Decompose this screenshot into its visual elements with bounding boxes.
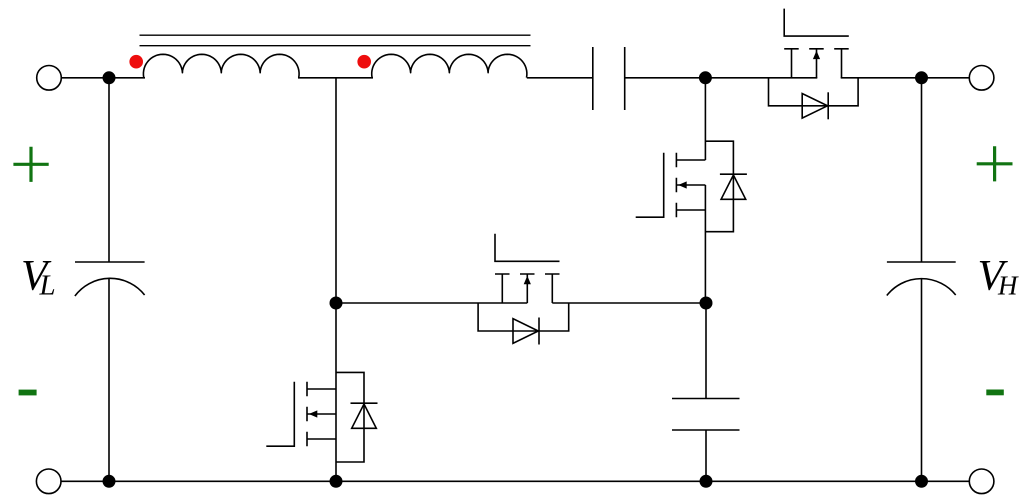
MOSFET Q4 (top right switch) body diode [802, 94, 827, 119]
MOSFET Q1 (bottom tap switch) body diode [352, 404, 377, 428]
MOSFET Q4 (top right switch) gate [784, 9, 849, 36]
node B junction [915, 71, 928, 84]
node bottom-right junction [915, 475, 928, 488]
MOSFET Q1 (bottom tap switch) drain/body/source leads [307, 389, 336, 439]
wire node A to Q4 [705, 77, 817, 79]
wire C1 to node A [625, 77, 706, 79]
wire node B to top-right terminal [922, 77, 970, 79]
terminal bottom-left [36, 469, 61, 494]
capacitor C1 left plate [592, 47, 594, 110]
terminal top-right [969, 66, 994, 91]
MOSFET Q1 (bottom tap switch) channel bars [306, 382, 308, 447]
wire C2 to bottom rail [705, 430, 707, 481]
MOSFET Q4 (top right switch) channel bars [784, 48, 849, 50]
wire Q2 drain side to node D [552, 302, 706, 304]
capacitor CL flat plate [75, 261, 145, 263]
transformer core line lower [140, 45, 531, 47]
wire node C to Q1 to bottom rail [335, 303, 337, 481]
terminal bottom-right [969, 469, 994, 494]
MOSFET Q2 (middle switch) channel bars [495, 273, 560, 275]
capacitor C1 right plate [624, 47, 626, 110]
capacitor C2 top plate [672, 398, 740, 400]
wire top-left terminal to winding 1 [61, 77, 145, 79]
MOSFET Q1 (bottom tap switch) gate [266, 382, 294, 446]
MOSFET Q2 (middle switch) body diode loop [478, 303, 569, 331]
wire node C to Q2 source side [336, 302, 527, 304]
polarity dot winding 2 [357, 55, 371, 69]
MOSFET Q3 (upper right vertical switch) channel bars [675, 153, 677, 218]
MOSFET Q4 (top right switch) body arrow [813, 51, 820, 60]
transformer core line upper [140, 34, 531, 36]
polarity dot winding 1 [129, 55, 143, 69]
MOSFET Q3 (upper right vertical switch) drain/body/source leads [676, 160, 705, 210]
MOSFET Q2 (middle switch) body diode [513, 319, 538, 344]
node A junction [699, 71, 712, 84]
wire bottom rail [61, 480, 969, 482]
MOSFET Q1 (bottom tap switch) body diode loop [336, 372, 364, 462]
MOSFET Q3 (upper right vertical switch) body diode [721, 175, 746, 199]
node bottom-left junction [103, 475, 116, 488]
node Q1 source junction [330, 475, 343, 488]
capacitor CH flat plate [887, 261, 956, 263]
node D junction [700, 297, 713, 310]
wire right branch lower [921, 279, 923, 482]
capacitor CL curved plate [75, 278, 145, 296]
MOSFET Q2 (middle switch) body arrow [524, 276, 531, 285]
wire node D to capacitor C2 [705, 303, 707, 399]
wire Q3 source to node D [704, 185, 706, 303]
wire node A to Q3 drain [704, 78, 706, 160]
svg-text:H: H [997, 271, 1019, 301]
MOSFET Q4 (top right switch) body diode loop [769, 78, 859, 106]
node top-left junction [103, 71, 116, 84]
plus sign left [13, 147, 48, 182]
MOSFET Q3 (upper right vertical switch) body diode loop [705, 141, 733, 232]
wire transformer tap down [335, 78, 337, 303]
MOSFET Q4 (top right switch) source/body/drain leads [792, 49, 842, 78]
plus sign right [977, 146, 1013, 181]
svg-text:L: L [39, 270, 56, 302]
capacitor C2 bottom plate [672, 429, 740, 431]
wire right branch upper [921, 78, 923, 262]
terminal top-left [37, 66, 62, 91]
wire winding 2 to capacitor C1 [527, 77, 593, 79]
node C2 bottom junction [700, 475, 713, 488]
inductor winding 1 (primary) [143, 54, 299, 77]
inductor winding 2 (secondary) [372, 54, 527, 77]
MOSFET Q2 (middle switch) gate [495, 234, 560, 261]
wire left branch upper [108, 78, 110, 262]
wire between windings (tap section) [298, 77, 373, 79]
wire left branch lower [108, 279, 110, 482]
wire Q4 to node B [841, 77, 922, 79]
minus sign left [19, 390, 37, 396]
MOSFET Q3 (upper right vertical switch) gate [636, 153, 664, 217]
node C junction [330, 297, 343, 310]
minus sign right [986, 390, 1004, 396]
MOSFET Q2 (middle switch) source/body/drain leads [502, 274, 552, 303]
capacitor CH curved plate [887, 279, 956, 296]
MOSFET Q3 (upper right vertical switch) body arrow [678, 181, 687, 188]
MOSFET Q1 (bottom tap switch) body arrow [309, 410, 318, 417]
